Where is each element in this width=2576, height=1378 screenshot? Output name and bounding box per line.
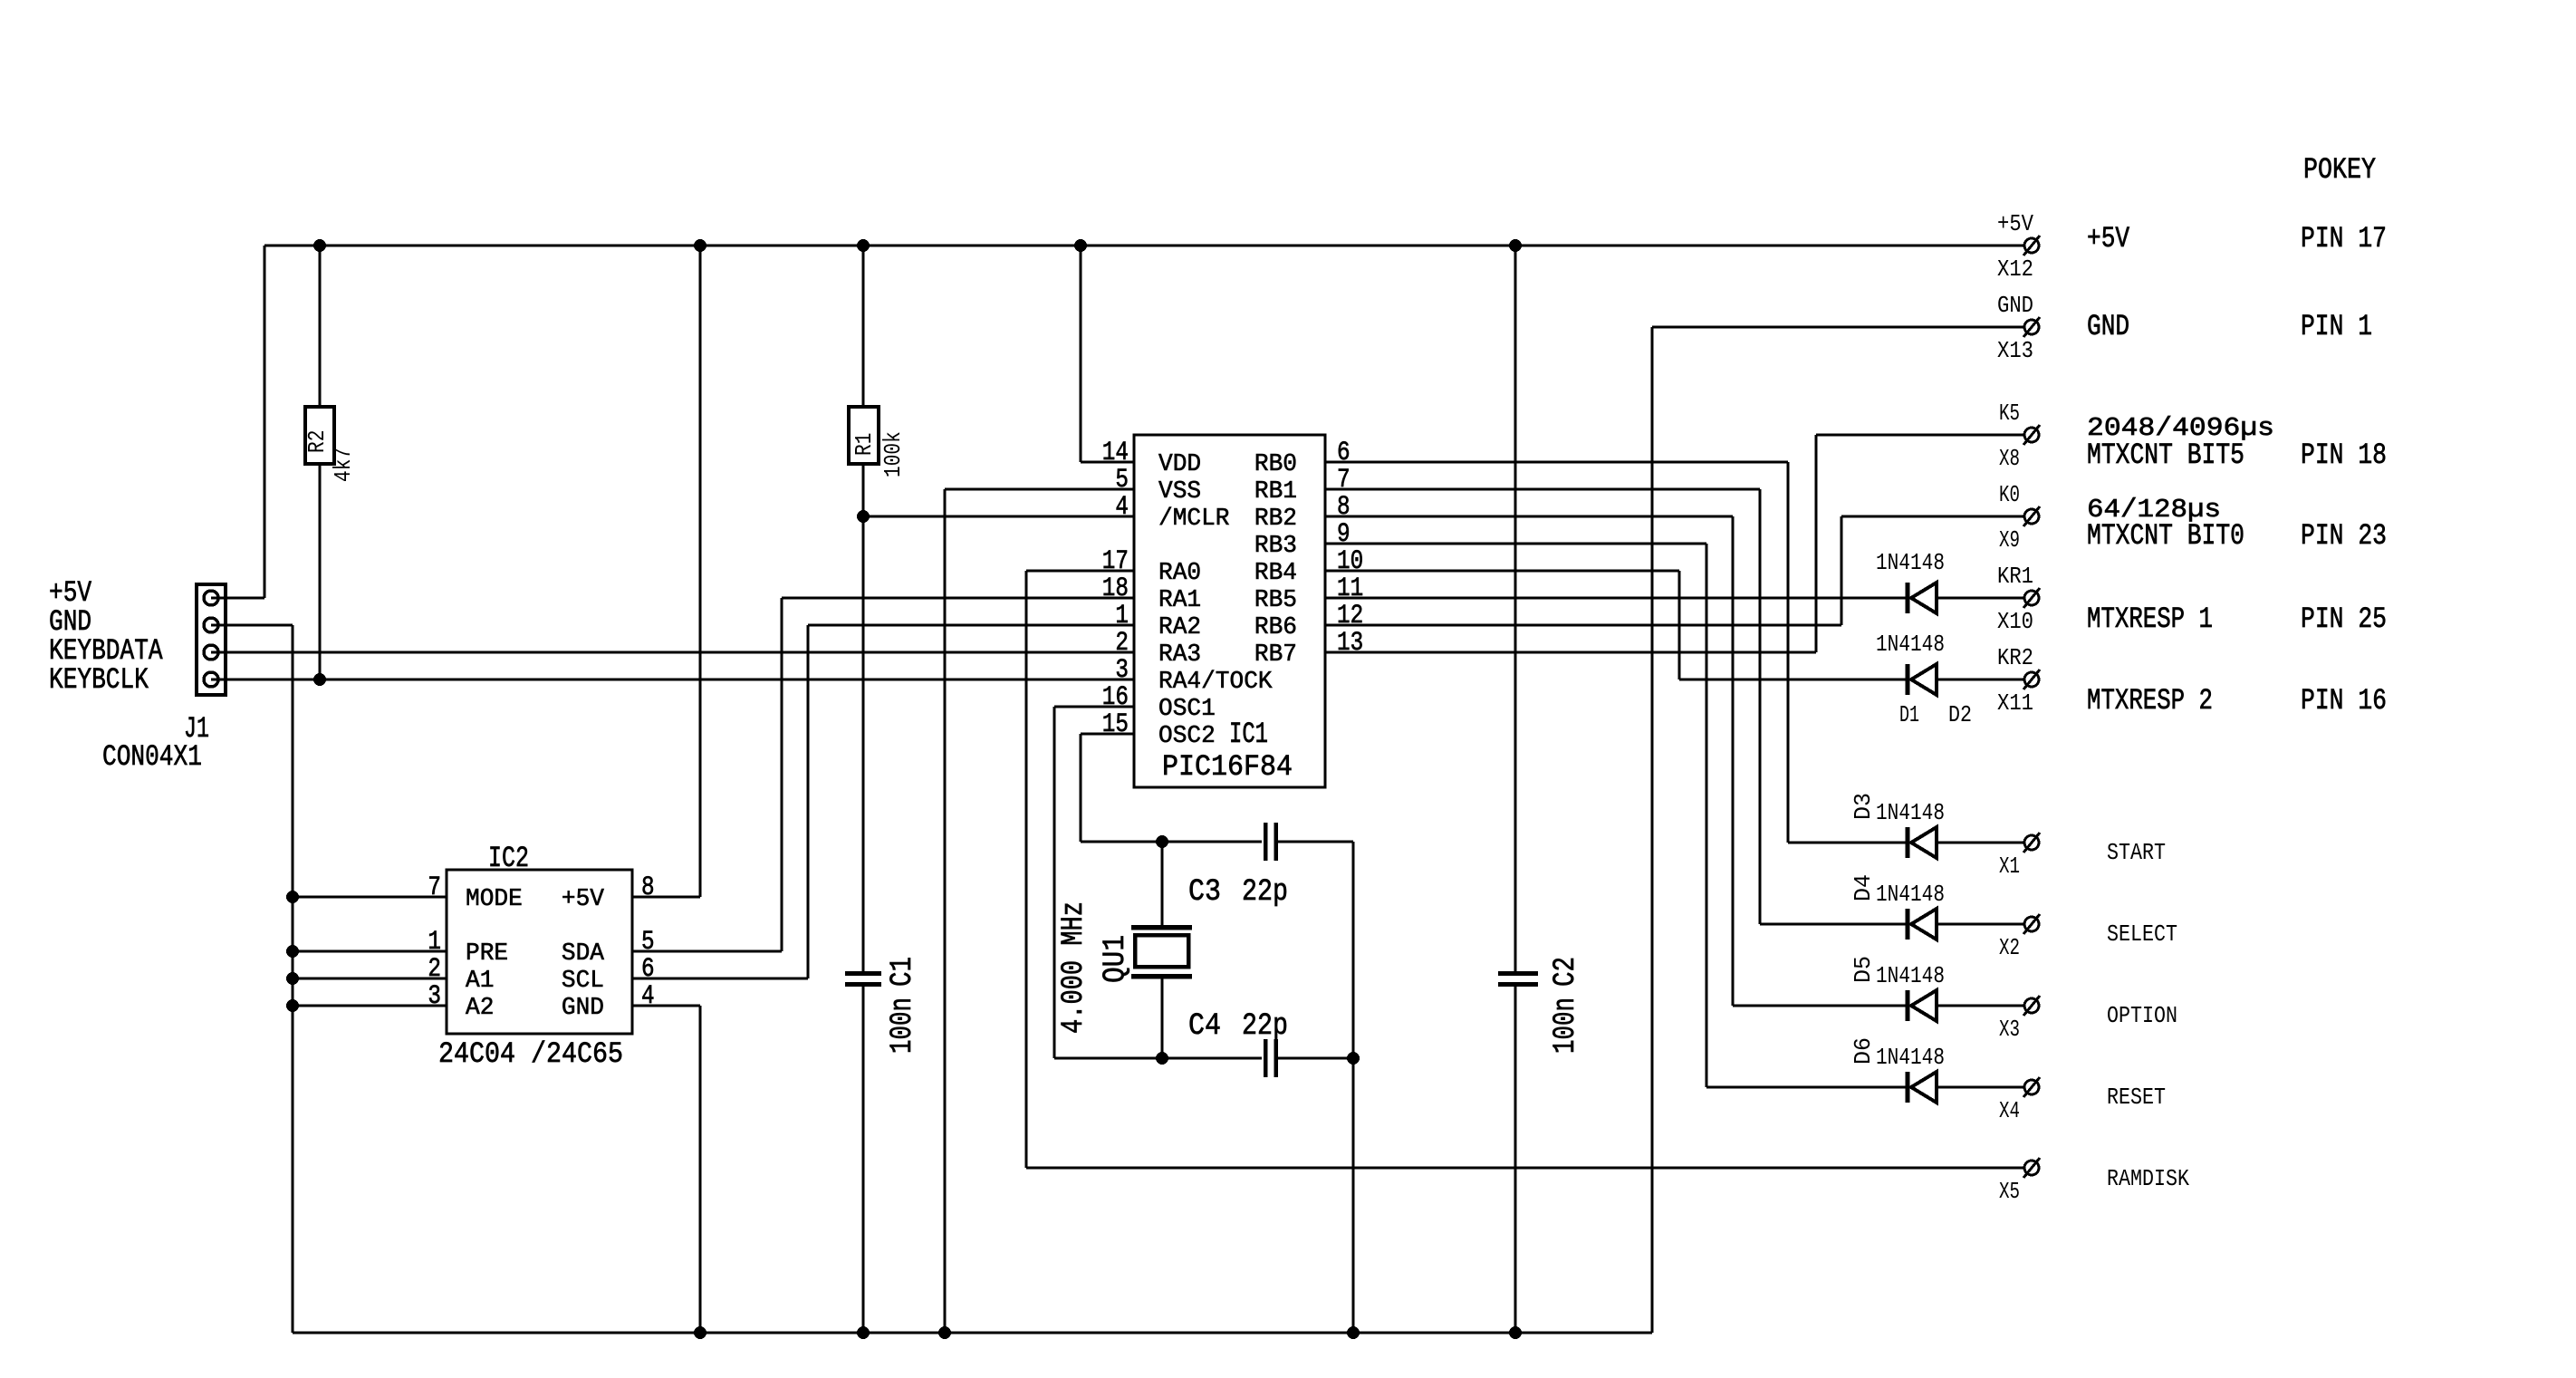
svg-text:7: 7 [428, 872, 441, 903]
svg-text:12: 12 [1337, 601, 1363, 631]
svg-text:C1: C1 [886, 957, 920, 987]
terminal X13 GND [2024, 320, 2039, 334]
terminal X2 [2024, 917, 2039, 931]
svg-text:D6: D6 [1850, 1037, 1877, 1065]
svg-text:X12: X12 [1997, 255, 2033, 283]
svg-text:QU1: QU1 [1099, 935, 1133, 983]
svg-text:14: 14 [1102, 438, 1129, 468]
diode D3 1N4148 [1906, 827, 1910, 858]
svg-text:1N4148: 1N4148 [1876, 881, 1945, 908]
wire VSS pin5 [945, 488, 1134, 491]
wire RB1 to D4 [1325, 488, 1760, 491]
svg-text:PIN 18: PIN 18 [2301, 438, 2387, 472]
wire RA0 to RAMDISK [1026, 570, 1134, 573]
svg-text:RA0: RA0 [1158, 560, 1201, 587]
svg-text:RAMDISK: RAMDISK [2107, 1165, 2189, 1192]
svg-text:1: 1 [428, 927, 441, 958]
svg-text:K0: K0 [1999, 481, 2020, 508]
svg-text:22p: 22p [1242, 1009, 1288, 1044]
svg-text:RA2: RA2 [1158, 614, 1201, 641]
resistor R1 [849, 407, 879, 464]
svg-text:8: 8 [1337, 492, 1350, 523]
svg-text:3: 3 [1115, 655, 1129, 686]
wire RB6 to K0 [1325, 624, 1841, 627]
diode D5 1N4148 [1906, 990, 1910, 1021]
capacitor C2 [1498, 971, 1538, 976]
svg-text:START: START [2107, 839, 2166, 866]
wire IC2 A2 [293, 1005, 447, 1007]
crystal QU1 [1131, 925, 1192, 930]
terminal X10 KR1 [2024, 591, 2039, 605]
svg-text:5: 5 [641, 927, 655, 958]
svg-text:16: 16 [1102, 682, 1129, 713]
svg-text:PIN 16: PIN 16 [2301, 684, 2387, 718]
svg-text:PIC16F84: PIC16F84 [1162, 750, 1293, 784]
svg-text:X8: X8 [1999, 445, 2020, 472]
terminal X4 [2024, 1080, 2039, 1094]
svg-text:6: 6 [1337, 438, 1350, 468]
svg-text:3: 3 [428, 981, 441, 1012]
wire R1 bottom /C1 [862, 464, 865, 971]
svg-text:5: 5 [1115, 465, 1129, 496]
svg-text:VDD: VDD [1158, 451, 1201, 478]
svg-text:4.000 MHz: 4.000 MHz [1057, 901, 1091, 1034]
svg-text:4: 4 [1115, 492, 1129, 523]
wire C2 vertical [1514, 246, 1517, 971]
svg-text:100k: 100k [879, 431, 907, 477]
svg-text:2: 2 [1115, 628, 1129, 659]
svg-text:22p: 22p [1242, 875, 1288, 910]
svg-text:X13: X13 [1997, 337, 2033, 364]
svg-text:RB7: RB7 [1254, 641, 1297, 669]
svg-text:A2: A2 [466, 995, 494, 1022]
svg-text:POKEY: POKEY [2303, 153, 2376, 187]
svg-text:+5V: +5V [2087, 222, 2130, 255]
wire R1 top [862, 246, 865, 407]
svg-text:OPTION: OPTION [2107, 1002, 2177, 1029]
diode D2 1N4148 [1906, 664, 1910, 695]
terminal X8 K5 [2024, 428, 2039, 442]
wire crystal leads [1161, 842, 1164, 925]
wire IC2 +5V pin8 [632, 896, 700, 899]
svg-text:RB6: RB6 [1254, 614, 1297, 641]
svg-text:GND: GND [562, 995, 604, 1022]
wire RB3 to D6 [1325, 543, 1706, 545]
connector J1 [197, 584, 226, 695]
svg-text:RA1: RA1 [1158, 587, 1201, 614]
svg-text:18: 18 [1102, 573, 1129, 604]
svg-text:/MCLR: /MCLR [1158, 506, 1230, 533]
wire VDD pin14 [1080, 246, 1082, 462]
svg-text:KR2: KR2 [1997, 644, 2033, 671]
wire +5V rail from J1 pin1 [219, 597, 264, 600]
wire OSC2 to C3 [1081, 733, 1134, 736]
svg-text:RA4/TOCK: RA4/TOCK [1158, 669, 1273, 696]
svg-text:IC2: IC2 [488, 842, 529, 875]
wire R2 top [319, 246, 322, 407]
wire RB2 to D5 [1325, 516, 1733, 518]
svg-text:100n: 100n [886, 997, 920, 1054]
svg-text:PRE: PRE [466, 940, 508, 968]
op IC2 24C04 box [447, 870, 632, 1034]
svg-text:RB5: RB5 [1254, 587, 1297, 614]
svg-text:X2: X2 [1999, 934, 2020, 961]
svg-text:D5: D5 [1850, 956, 1877, 983]
svg-text:VSS: VSS [1158, 478, 1201, 506]
svg-text:RB0: RB0 [1254, 451, 1297, 478]
terminal X11 KR2 [2024, 672, 2039, 687]
svg-text:R1: R1 [851, 433, 878, 456]
svg-text:+5V: +5V [1997, 210, 2033, 237]
svg-text:MTXCNT BIT5: MTXCNT BIT5 [2087, 438, 2244, 472]
svg-text:13: 13 [1337, 628, 1363, 659]
svg-text:X5: X5 [1999, 1178, 2020, 1205]
svg-text:MTXRESP 2: MTXRESP 2 [2087, 684, 2213, 718]
svg-text:D3: D3 [1850, 793, 1877, 820]
wire GND bus [293, 1332, 1652, 1335]
svg-text:15: 15 [1102, 709, 1129, 740]
svg-text:24C04 /24C65: 24C04 /24C65 [438, 1037, 623, 1071]
wire KEYBCLK to RA4 [219, 679, 1134, 681]
svg-text:GND: GND [2087, 310, 2129, 343]
svg-text:8: 8 [641, 872, 655, 903]
terminal X5 [2024, 1161, 2039, 1175]
svg-text:SCL: SCL [562, 968, 604, 995]
wire RA2 to SCL [808, 624, 1134, 627]
svg-text:10: 10 [1337, 546, 1363, 577]
wire KEYBDATA to RA3 [219, 651, 1134, 654]
svg-text:6: 6 [641, 954, 655, 985]
svg-text:C4: C4 [1188, 1009, 1221, 1044]
svg-text:SELECT: SELECT [2107, 920, 2177, 948]
svg-text:PIN 17: PIN 17 [2301, 222, 2387, 255]
wire RB0 to D3 [1325, 461, 1788, 464]
wire IC2 A1 [293, 978, 447, 980]
terminal X9 K0 [2024, 509, 2039, 524]
wire OSC1 to C4 [1054, 706, 1134, 708]
diode D1 1N4148 [1906, 583, 1910, 613]
svg-text:1N4148: 1N4148 [1876, 1044, 1945, 1071]
wire J1 pin2 GND [219, 624, 293, 627]
svg-text:RB3: RB3 [1254, 533, 1297, 560]
svg-text:MODE: MODE [466, 886, 523, 913]
svg-text:MTXRESP 1: MTXRESP 1 [2087, 602, 2213, 636]
svg-text:+5V: +5V [562, 886, 605, 913]
svg-text:7: 7 [1337, 465, 1350, 496]
wire RB7 to K5 [1325, 651, 1816, 654]
wire IC2 GND pin4 [632, 1005, 700, 1007]
wire IC2 MODE [293, 896, 447, 899]
svg-text:IC1: IC1 [1229, 718, 1268, 751]
svg-text:11: 11 [1337, 573, 1363, 604]
svg-text:1N4148: 1N4148 [1876, 549, 1945, 576]
svg-text:KEYBCLK: KEYBCLK [49, 663, 149, 697]
svg-text:A1: A1 [466, 968, 494, 995]
svg-text:RA3: RA3 [1158, 641, 1201, 669]
svg-text:D2: D2 [1948, 701, 1972, 728]
wire RB5 to D1 [1325, 597, 1906, 600]
svg-text:X4: X4 [1999, 1097, 2020, 1124]
svg-text:CON04X1: CON04X1 [102, 740, 202, 774]
svg-text:K5: K5 [1999, 400, 2020, 427]
capacitor C1 [845, 971, 881, 976]
terminal X1 [2024, 835, 2039, 850]
capacitor C3 [1264, 823, 1268, 861]
svg-text:X10: X10 [1997, 608, 2033, 635]
svg-text:PIN 23: PIN 23 [2301, 519, 2387, 553]
svg-text:X9: X9 [1999, 526, 2020, 554]
svg-text:D1: D1 [1899, 701, 1919, 728]
svg-text:RESET: RESET [2107, 1084, 2166, 1111]
svg-text:C2: C2 [1549, 957, 1583, 987]
svg-text:4k7: 4k7 [330, 448, 357, 482]
svg-text:1N4148: 1N4148 [1876, 799, 1945, 826]
svg-text:PIN 1: PIN 1 [2301, 310, 2372, 343]
svg-text:X11: X11 [1997, 689, 2033, 717]
capacitor C4 [1264, 1039, 1268, 1077]
svg-text:D4: D4 [1850, 874, 1877, 901]
wire IC2 PRE [293, 950, 447, 953]
diode D4 1N4148 [1906, 909, 1910, 940]
svg-text:OSC2: OSC2 [1158, 723, 1216, 750]
svg-text:X3: X3 [1999, 1016, 2020, 1043]
svg-text:RB4: RB4 [1254, 560, 1297, 587]
svg-text:X1: X1 [1999, 853, 2020, 880]
svg-text:RB2: RB2 [1254, 506, 1297, 533]
svg-text:17: 17 [1102, 546, 1129, 577]
svg-text:KR1: KR1 [1997, 563, 2033, 590]
terminal X12 +5V [2024, 238, 2039, 253]
node +5V rail junctions [313, 239, 326, 252]
svg-text:1N4148: 1N4148 [1876, 631, 1945, 658]
svg-text:R2: R2 [303, 430, 331, 453]
svg-text:4: 4 [641, 981, 655, 1012]
svg-text:C3: C3 [1188, 875, 1221, 910]
wire /MCLR pin4 [863, 516, 1134, 518]
svg-text:PIN 25: PIN 25 [2301, 602, 2387, 636]
svg-text:OSC1: OSC1 [1158, 696, 1216, 723]
svg-text:1N4148: 1N4148 [1876, 962, 1945, 989]
svg-text:2: 2 [428, 954, 441, 985]
op IC1 PIC16F84 box [1134, 435, 1325, 787]
diode D6 1N4148 [1906, 1072, 1910, 1103]
svg-text:RB1: RB1 [1254, 478, 1297, 506]
svg-text:100n: 100n [1549, 997, 1583, 1054]
svg-text:SDA: SDA [562, 940, 605, 968]
svg-text:1: 1 [1115, 601, 1129, 631]
wire R2 bottom to KEYBCLK [319, 464, 322, 679]
svg-text:9: 9 [1337, 519, 1350, 550]
wire RB4 to D2 [1325, 570, 1679, 573]
resistor R2 [305, 407, 334, 464]
svg-text:GND: GND [1997, 292, 2033, 319]
wire RA1 to SDA [782, 597, 1134, 600]
terminal X3 [2024, 998, 2039, 1013]
svg-text:MTXCNT BIT0: MTXCNT BIT0 [2087, 519, 2244, 553]
